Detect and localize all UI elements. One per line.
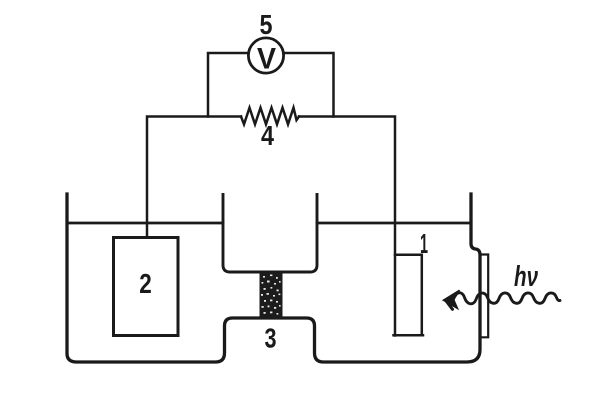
vessel outer outline (cell body) bbox=[67, 194, 480, 362]
svg-text:1: 1 bbox=[420, 228, 428, 259]
resistor R4 zigzag bbox=[241, 108, 299, 125]
hv light arrowhead bbox=[444, 290, 460, 308]
svg-text:V: V bbox=[257, 43, 276, 76]
wire from node at left corner down to electrode 2 bbox=[147, 117, 241, 238]
voltmeter U5 circle bbox=[248, 38, 283, 73]
svg-text:3: 3 bbox=[265, 323, 277, 354]
vessel inner partition walls and channel ceiling bbox=[223, 195, 317, 273]
electrode 1 (photoelectrode) bbox=[394, 255, 424, 336]
hv light wavy ray bbox=[453, 293, 560, 304]
wire from resistor right to corner and down to electrode 1 bbox=[299, 117, 395, 336]
electrode 2 (counter electrode) bbox=[114, 238, 179, 336]
quartz window (double line) bbox=[481, 255, 488, 338]
svg-text:2: 2 bbox=[139, 268, 152, 299]
liquid level line (right compartment) bbox=[317, 222, 471, 225]
svg-text:5: 5 bbox=[260, 9, 273, 40]
wire voltmeter left branch bbox=[208, 53, 248, 117]
liquid level line (left compartment) bbox=[67, 222, 223, 225]
svg-text:hν: hν bbox=[514, 261, 538, 293]
wire voltmeter right branch bbox=[284, 53, 334, 117]
svg-text:4: 4 bbox=[261, 120, 274, 151]
frit 3 (sintered glass diaphragm) bbox=[260, 273, 283, 320]
